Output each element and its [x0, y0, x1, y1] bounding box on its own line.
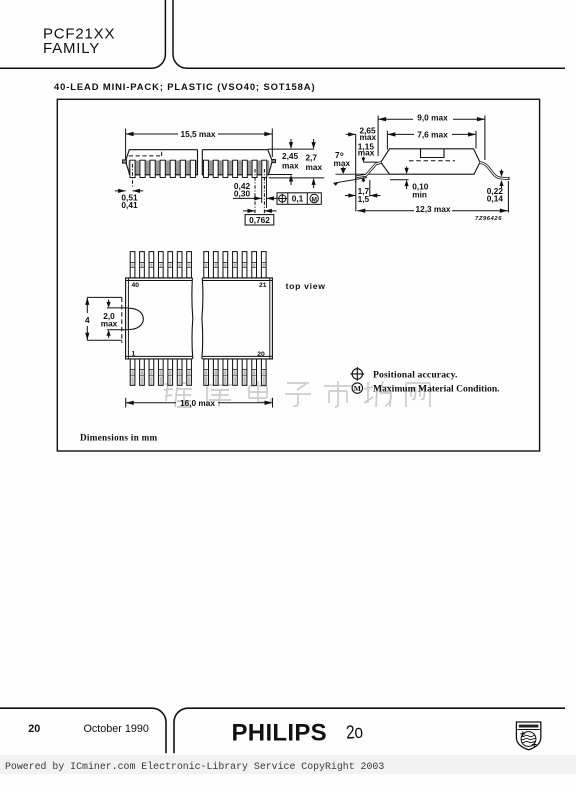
svg-text:20: 20	[28, 723, 40, 735]
top pins left group	[130, 252, 266, 278]
dim 4	[87, 297, 122, 340]
svg-text:15,5 max: 15,5 max	[180, 129, 215, 139]
side view leads right half	[204, 160, 267, 177]
side view body outline left half	[123, 150, 198, 175]
philips shield logo	[516, 722, 540, 750]
svg-text:7,6 max: 7,6 max	[417, 129, 448, 139]
dim 16,0 max	[126, 398, 273, 408]
dim 15,5 max extension lines	[126, 129, 273, 164]
svg-text:16,0 max: 16,0 max	[180, 398, 215, 408]
top view body right half	[202, 278, 272, 359]
svg-text:0,41: 0,41	[121, 200, 138, 210]
dim 0,51/0,41	[115, 164, 143, 191]
right end nub	[272, 160, 276, 163]
top pins inner lines	[130, 263, 266, 268]
pin shading marks	[131, 263, 265, 267]
watermark	[164, 381, 430, 407]
svg-text:October 1990: October 1990	[84, 723, 149, 735]
svg-text:2o: 2o	[345, 720, 363, 743]
svg-text:max: max	[358, 148, 375, 158]
bottom pins inner lines	[130, 370, 266, 376]
hidden dashed line	[409, 160, 455, 162]
svg-text:max: max	[101, 319, 118, 329]
dashed pin1 marking	[129, 150, 162, 156]
top depression	[421, 149, 445, 158]
pin 40 D-notch	[128, 308, 143, 329]
bottom pins left group	[130, 359, 266, 385]
svg-text:max: max	[334, 158, 351, 168]
svg-text:0,762: 0,762	[249, 215, 270, 225]
svg-text:max: max	[282, 160, 299, 170]
left gull-wing lead	[356, 162, 381, 179]
dim 0,42/0,30 with leader lines	[233, 169, 277, 213]
dim 2,0 max	[107, 300, 128, 339]
svg-text:Maximum Material Condition.: Maximum Material Condition.	[373, 383, 500, 394]
header rule with double curve	[0, 0, 565, 68]
dim 0,762 pitch	[243, 211, 277, 225]
svg-text:7Z96426: 7Z96426	[475, 216, 502, 222]
svg-text:0,14: 0,14	[487, 194, 504, 204]
dim 15,5 arrows	[126, 132, 273, 136]
7 deg angle line	[334, 178, 368, 184]
left end nub	[123, 160, 127, 163]
svg-text:12,3 max: 12,3 max	[415, 204, 450, 214]
dim 0,10 min	[406, 167, 408, 190]
svg-text:21: 21	[259, 282, 267, 289]
body bottom reference line	[336, 173, 390, 175]
top view body left half	[126, 278, 193, 359]
dim 1,7/1,5	[345, 180, 381, 212]
dim 2,65 max (horizontal, chained)	[346, 134, 356, 183]
svg-text:M: M	[311, 196, 316, 203]
feature control frame [pos|0,1|M]	[277, 193, 321, 205]
copyright line	[5, 761, 384, 772]
footer rule with double curve	[0, 708, 565, 753]
seating plane	[390, 179, 409, 181]
end view body hexagon	[381, 149, 480, 174]
side view body right half: gray band	[202, 160, 269, 174]
dim 2,45 / 2,7 max	[268, 139, 324, 188]
svg-text:top view: top view	[286, 281, 326, 291]
dashed lead-tip line	[121, 298, 123, 344]
svg-text:PHILIPS: PHILIPS	[232, 719, 327, 746]
legend: positional accuracy	[350, 367, 364, 381]
svg-text:40-LEAD MINI-PACK; PLASTIC (VS: 40-LEAD MINI-PACK; PLASTIC (VSO40; SOT15…	[54, 81, 315, 92]
dim 12,3 max	[357, 181, 508, 213]
svg-text:M: M	[354, 384, 361, 393]
right gull-wing lead	[480, 162, 509, 180]
side view leads left half	[130, 160, 196, 177]
dim 9,0 max	[378, 116, 485, 161]
svg-text:0,1: 0,1	[292, 194, 304, 204]
svg-text:1,5: 1,5	[358, 194, 370, 204]
svg-text:1: 1	[132, 351, 136, 358]
svg-text:20: 20	[257, 351, 265, 358]
figure frame box	[57, 99, 539, 451]
body inner edge lines	[126, 281, 273, 357]
svg-text:Positional accuracy.: Positional accuracy.	[373, 369, 458, 380]
svg-text:FAMILY: FAMILY	[43, 40, 100, 57]
dim 7,6 max	[387, 131, 476, 150]
dim 0,22/0,14	[501, 170, 503, 189]
svg-text:4: 4	[85, 315, 90, 325]
side view body outline right half	[202, 150, 275, 175]
svg-text:9,0 max: 9,0 max	[417, 113, 448, 123]
svg-text:0,30: 0,30	[234, 188, 251, 198]
svg-text:o: o	[340, 152, 344, 158]
svg-text:min: min	[412, 190, 427, 200]
svg-text:max: max	[306, 162, 323, 172]
svg-text:Dimensions in mm: Dimensions in mm	[80, 432, 158, 442]
side view body left half: gray band	[129, 160, 198, 174]
legend: maximum material condition	[352, 383, 362, 393]
svg-text:40: 40	[132, 282, 140, 289]
dim 15,5 max line	[126, 133, 273, 135]
